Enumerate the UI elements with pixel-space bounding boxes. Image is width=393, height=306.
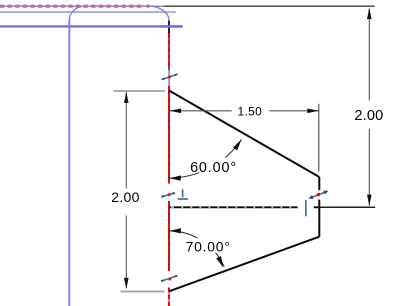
svg-text:2.00: 2.00 xyxy=(111,189,139,205)
svg-text:60.00°: 60.00° xyxy=(190,160,237,176)
svg-text:2.00: 2.00 xyxy=(354,108,383,124)
svg-text:70.00°: 70.00° xyxy=(186,238,231,254)
svg-text:1.50: 1.50 xyxy=(238,104,263,118)
